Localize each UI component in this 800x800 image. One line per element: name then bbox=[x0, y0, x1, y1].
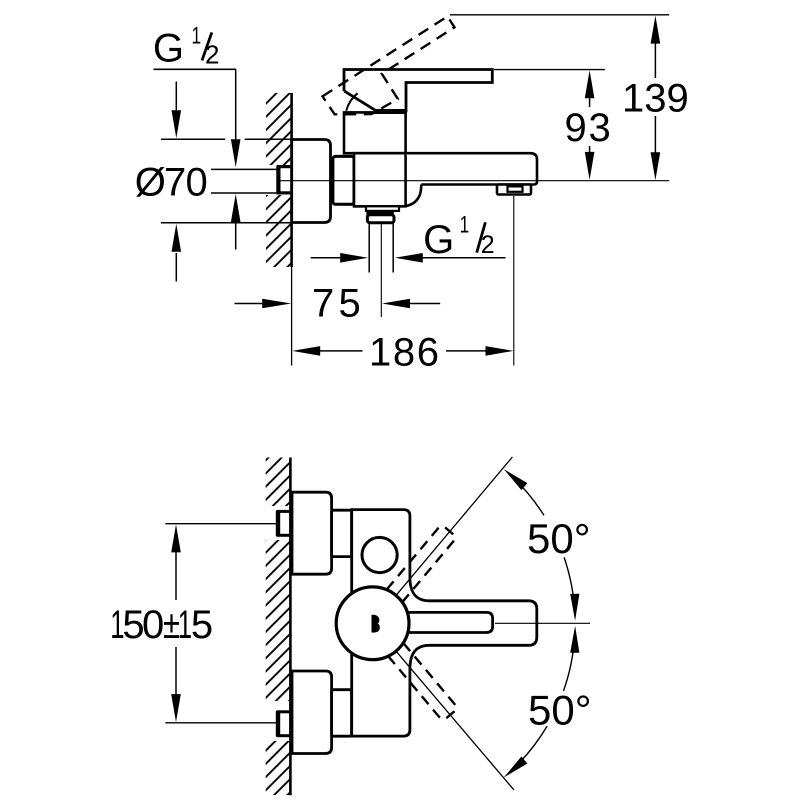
50deg reference line lower bbox=[392, 646, 514, 790]
svg-text:186: 186 bbox=[369, 331, 441, 375]
50deg arc lower bbox=[564, 632, 575, 691]
lever raised position dashed (front) bbox=[364, 526, 454, 629]
139 dimension bbox=[450, 14, 669, 16]
body with lever (front view) bbox=[352, 510, 537, 736]
outlet nut (dark band) bbox=[366, 211, 393, 216]
body bottom edge bbox=[354, 205, 404, 208]
lever handle alternate raised position (dashed) bbox=[323, 16, 455, 114]
lever grip slot (front) bbox=[400, 612, 493, 632]
spout underside fillet from body bbox=[404, 185, 421, 207]
svg-text:2: 2 bbox=[481, 231, 495, 259]
escutcheon bottom (front) bbox=[292, 671, 332, 754]
O70 dimension arrows bbox=[175, 82, 177, 112]
svg-text:0: 0 bbox=[142, 603, 164, 647]
thick lever base line bbox=[374, 109, 406, 114]
horizontal centerline / 93-139 extension line bbox=[281, 180, 670, 182]
shower outlet stub below body bbox=[366, 206, 399, 211]
union nut bottom (front) bbox=[332, 690, 352, 737]
svg-text:1: 1 bbox=[192, 23, 202, 50]
escutcheon rosette (side view) bbox=[292, 140, 331, 223]
svg-text:93: 93 bbox=[565, 106, 613, 150]
svg-text:1: 1 bbox=[460, 211, 470, 238]
extension line escutcheon bottom bbox=[161, 222, 292, 224]
wall (front view, hatched) bbox=[266, 458, 291, 796]
supply pipe nipple behind wall bbox=[211, 169, 277, 193]
cartridge housing block bbox=[344, 112, 406, 153]
75 dimension bbox=[235, 303, 265, 305]
93 dimension bbox=[494, 69, 605, 71]
main body block bbox=[354, 153, 406, 206]
wall face extension line down to dimension lines bbox=[291, 267, 293, 366]
svg-text:139: 139 bbox=[622, 77, 689, 121]
G1/2 wall socket bracket bbox=[277, 166, 291, 194]
G 1/2 top arrows (pipe OD) bbox=[231, 139, 241, 167]
186 dimension bbox=[292, 346, 320, 356]
G 1/2 bottom arrows (pipe thread) bbox=[311, 257, 342, 259]
union nut (side view) bbox=[333, 155, 354, 205]
outlet collar bbox=[367, 215, 394, 223]
lever axis centerline (front) bbox=[495, 622, 590, 624]
hinge ball arc bbox=[346, 93, 357, 111]
G 1/2 bottom label bbox=[423, 211, 495, 262]
escutcheon top (front) bbox=[292, 492, 332, 574]
extension line escutcheon top bbox=[161, 138, 225, 140]
set screw hole in ball bbox=[372, 615, 380, 633]
svg-text:G: G bbox=[423, 218, 454, 262]
svg-text:G: G bbox=[153, 27, 184, 71]
lever lowered position dashed (front) bbox=[366, 616, 456, 719]
svg-text:2: 2 bbox=[205, 40, 219, 70]
lever pivot ball (front) bbox=[336, 587, 409, 660]
aerator on spout underside bbox=[497, 185, 531, 195]
aerator centerline extension bbox=[513, 196, 515, 366]
150 +/- 15 dimension bbox=[165, 523, 276, 525]
upper pushbutton circle (front) bbox=[362, 537, 397, 572]
svg-text:0: 0 bbox=[186, 161, 208, 205]
wall (side view, hatched) bbox=[266, 93, 292, 267]
wall socket bracket bottom (front) bbox=[276, 711, 290, 736]
svg-text:50°: 50° bbox=[528, 686, 592, 733]
G 1/2 top label bbox=[153, 23, 236, 142]
pipe centerline extension bbox=[380, 223, 382, 317]
50deg reference line upper bbox=[392, 457, 513, 600]
svg-text:5: 5 bbox=[339, 282, 361, 326]
svg-text:50°: 50° bbox=[527, 515, 591, 562]
spout (side view) bbox=[406, 153, 537, 184]
svg-text:7: 7 bbox=[312, 282, 334, 326]
svg-text:Ø: Ø bbox=[135, 161, 166, 205]
svg-text:5: 5 bbox=[191, 603, 213, 647]
shower hose connection pipe bbox=[369, 223, 393, 273]
50deg arc upper bbox=[515, 479, 545, 516]
wall socket bracket top (front) bbox=[276, 511, 290, 536]
union nut top (front) bbox=[332, 510, 352, 556]
svg-text:7: 7 bbox=[164, 161, 186, 205]
lever handle (horizontal position) bbox=[344, 70, 492, 113]
